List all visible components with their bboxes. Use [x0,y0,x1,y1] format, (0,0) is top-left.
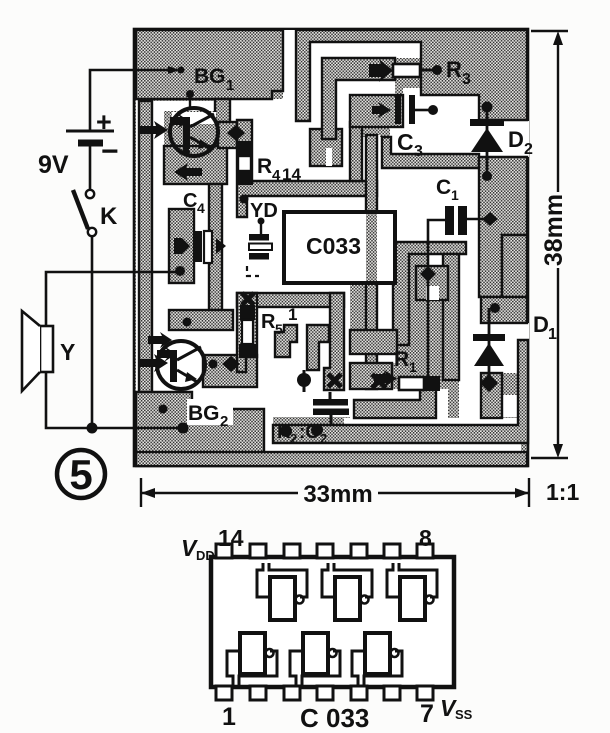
white channel above bottom band [264,409,273,452]
wire speaker top rail [46,272,178,326]
copper R5 finger A [275,325,297,357]
node above BG1 [186,90,194,98]
svg-text:2: 2 [220,413,228,430]
gap pocket left of rings [252,108,310,181]
copper R1 maze gamma [393,242,466,345]
svg-text:R: R [394,348,409,371]
svg-text:4: 4 [197,200,205,216]
copper block below BG1 [164,146,227,184]
resistor R1 [374,348,440,391]
svg-text:D: D [508,127,524,152]
copper central block [350,95,403,127]
whites around C4 [152,184,209,209]
gap channel CH1 top [283,30,296,118]
dimension 38mm right [531,31,568,458]
arrow pad left of BG2 [140,354,168,372]
copper stub trace to right column [382,137,479,168]
gap right of end block [342,139,350,166]
wire bottom rail to board [46,372,180,428]
arrow pad left of BG1 [140,121,168,139]
svg-text:C: C [397,129,414,155]
arrow pad above BG2 [148,332,172,348]
copper R5 finger B [307,325,329,370]
gate 3 [387,563,437,620]
svg-text:C033: C033 [306,233,361,259]
svg-text:C: C [436,176,451,199]
svg-text:SS: SS [455,707,473,722]
transistor BG1 [170,108,218,156]
svg-text:1:1: 1:1 [546,479,579,505]
copper island with pad [416,266,448,300]
pins 1..7 bottom [216,686,433,700]
pad battery wire end [168,66,180,74]
switch K [86,190,94,198]
gate 6 [352,633,402,687]
copper bridge BG1 to R4 [218,122,237,148]
copper top band and top-right block [296,30,527,121]
white slot in ring end block [326,148,332,166]
dimension 33mm bottom [141,478,529,507]
pads on bottom band [280,425,292,437]
svg-text:38mm: 38mm [540,194,568,266]
copper block above D1 [481,297,527,323]
battery B 9V [66,131,114,143]
wire switch to bottom rail [91,237,94,426]
copper band b R1 lead [350,363,392,389]
diamond pad island [420,266,436,282]
svg-text:1: 1 [288,305,297,324]
copper neck to BG1 right [215,99,230,122]
wire overlays entering board [134,69,170,72]
gap right of neck [230,99,296,121]
gate 2 [322,563,372,620]
svg-text:R: R [257,155,272,178]
gap outer ring [310,42,421,129]
speaker Y [40,326,53,372]
resonator YD [247,218,272,277]
diamond pad right of BG1 [227,125,245,141]
copper arm central block to hook [350,122,362,181]
white below C033 box [284,283,350,293]
white D1 notch [476,323,529,340]
gap left edge [136,99,140,429]
svg-text:−: − [101,135,119,168]
transistor BG2 [157,341,205,389]
copper R5 right band [324,293,344,390]
svg-text:8: 8 [419,525,432,551]
white notch BG2 label [187,399,233,425]
resistor R4 [236,141,253,185]
IC body [211,557,454,687]
copper right column D2-C1 [479,157,527,297]
copper bottom band 3 [136,452,527,466]
copper block below D1 [481,373,502,418]
svg-text:+: + [96,107,112,137]
gate 4 [227,633,277,687]
wire battery+ to board [90,70,168,131]
svg-text:R: R [446,57,462,82]
gate 1 [257,563,307,620]
pads right of BG2 [209,360,218,369]
pad on block below C4 [183,318,192,327]
white right-mid channels [466,242,479,254]
white R5 maze interior [257,307,344,417]
copper ring end block [310,129,342,166]
pad external wire end [178,423,189,434]
svg-text:3: 3 [414,143,423,160]
diode D2 [470,102,504,182]
copper R4 column and hook [237,120,377,217]
svg-text:33mm: 33mm [303,481,372,508]
board copper base [134,29,528,466]
copper block below C4 [169,310,233,330]
pad on bottom-left block [159,405,168,414]
svg-text:1: 1 [409,359,417,375]
arrow pad in block below BG1 [174,163,202,181]
pads in R5 maze [297,373,311,387]
svg-text:7: 7 [420,700,434,728]
svg-text:1: 1 [222,703,236,731]
copper L band below R1 [354,380,436,418]
white bottom-left around BG2 [152,330,264,409]
capacitor C4 [174,190,226,276]
svg-text:BG: BG [188,402,220,425]
gap right of cap [403,88,479,121]
svg-text:D: D [533,312,549,337]
svg-text:1: 1 [226,77,234,94]
copper C4 right column [209,184,222,310]
copper R1 maze right band [443,254,459,380]
white YD zone [222,148,237,210]
copper top-left block [136,30,283,99]
svg-text:2: 2 [524,141,533,158]
svg-text:14: 14 [218,525,244,551]
capacitor C2 [313,392,349,426]
svg-text:DD: DD [196,548,215,563]
gap above BG1 [146,101,215,111]
X pad on band b [372,374,386,388]
svg-text:1: 1 [451,187,459,203]
copper bottom-left block [136,392,264,463]
copper ring band [322,58,395,139]
svg-text:YD: YD [250,200,278,222]
C033 box [284,212,395,283]
junction node [87,423,98,434]
copper R5 maze top band [237,293,344,307]
svg-text:3: 3 [462,71,471,88]
X pad on R5 top band [242,293,254,305]
capacitor top (C3) [372,95,438,124]
svg-text:5: 5 [275,321,283,337]
svg-text:R: R [261,311,276,333]
svg-text:C 033: C 033 [300,703,369,733]
copper BG2 right band [203,355,257,387]
copper C4 block [169,209,194,283]
white above C033 box [229,176,397,212]
big white region C3 C1 D2 [312,121,529,297]
copper long strip [366,135,377,389]
svg-text:BG: BG [194,65,226,88]
resistor R5 [239,305,256,358]
svg-text:14: 14 [282,165,301,184]
diode D1 [473,308,505,392]
copper R5 left band [237,293,257,372]
wire battery- to switch [89,145,92,189]
copper left column [139,101,152,411]
gate 5 [290,633,340,687]
copper band a below box [350,330,397,354]
resistor R3 [369,59,442,82]
copper bottom band 2 with right column [273,340,528,443]
gap inner ring [336,80,395,139]
svg-text:1: 1 [548,326,557,343]
white pocket in island [426,286,439,300]
gap above hook [295,166,377,181]
svg-text:Y: Y [60,339,75,365]
svg-text:C: C [183,190,197,212]
pins 14..8 top [216,544,433,558]
pad top of D1 column [490,303,500,313]
copper narrow right column [502,235,527,297]
pad on hook [240,195,249,204]
gap left of block S4 [152,111,164,184]
svg-text:9V: 9V [38,151,69,179]
svg-text:5: 5 [69,451,92,498]
svg-text:K: K [100,203,118,230]
svg-text:4: 4 [272,167,281,184]
figure number 5 [57,450,105,498]
capacitor C1 [428,176,498,268]
